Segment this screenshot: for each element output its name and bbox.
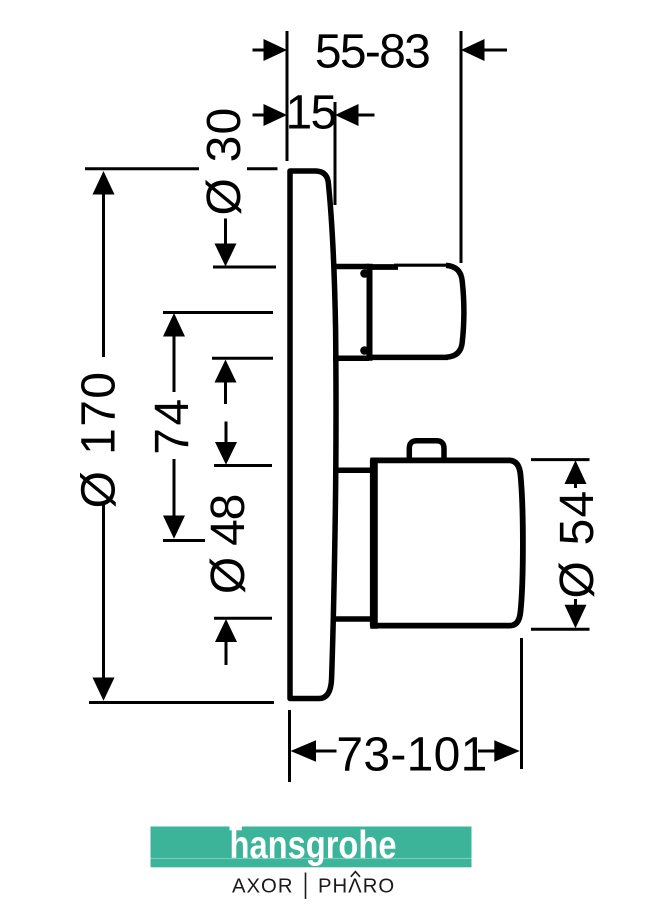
ext line diverter neck bottom xyxy=(212,357,273,360)
ext line vertical bottom left xyxy=(288,710,291,782)
ext line plate bottom xyxy=(89,701,274,704)
diverter knob base fillet bottom xyxy=(360,346,369,355)
svg-text:Ø 170: Ø 170 xyxy=(73,371,126,509)
diverter knob base edge xyxy=(367,264,373,361)
svg-text:73-101: 73-101 xyxy=(336,729,487,782)
diverter neck bottom line xyxy=(333,355,369,361)
ext line knob bottom right xyxy=(531,628,590,631)
svg-text:Ø 30: Ø 30 xyxy=(198,107,251,216)
thermostat neck bottom line xyxy=(332,616,372,622)
ext line vertical bottom right xyxy=(520,638,523,769)
svg-text:74: 74 xyxy=(146,396,199,454)
dimension dia54 bottom arrow xyxy=(565,599,587,628)
dimension dia48 top arrow xyxy=(215,422,237,465)
dimension 15 left arrow xyxy=(253,104,288,126)
svg-text:AXOR: AXOR xyxy=(232,876,293,898)
hansgrohe logo green box xyxy=(151,827,472,868)
svg-text:hansgrohe: hansgrohe xyxy=(230,824,397,867)
escutcheon plate xyxy=(290,171,336,699)
ext line thermostat neck top xyxy=(214,464,272,467)
dimension dia170 top arrow xyxy=(93,171,115,357)
hansgrohe logo notch xyxy=(230,827,242,831)
dimension 55-83 right arrow xyxy=(461,39,507,61)
ext line knob top right xyxy=(531,458,590,461)
diverter knob top edge thin segment xyxy=(394,264,449,267)
diverter knob body fill xyxy=(370,265,464,357)
ext line diverter neck top xyxy=(213,266,276,269)
ext line lower handle axis xyxy=(163,539,205,542)
dimension dia30 upper arrow xyxy=(215,219,237,267)
dimension 15 right arrow xyxy=(335,104,375,126)
ext line vertical x335 xyxy=(334,102,337,205)
svg-text:15: 15 xyxy=(286,87,336,140)
dimension 73-101 left arrow xyxy=(291,740,337,761)
diverter neck top line xyxy=(333,264,369,270)
diverter knob top edge washer segment xyxy=(370,264,399,270)
pharo circumflex xyxy=(351,872,360,877)
dimension dia30 lower arrow xyxy=(215,360,237,405)
svg-text:55-83: 55-83 xyxy=(315,26,429,79)
dimension 73-101 right arrow xyxy=(478,740,520,761)
ext line vertical x461 xyxy=(460,31,463,263)
dimension dia48 bottom arrow xyxy=(215,619,237,665)
thermostat knob base edge xyxy=(370,458,378,629)
diverter knob base fillet top xyxy=(360,269,369,278)
dimension dia170 bottom arrow xyxy=(93,505,115,701)
diverter knob bottom edge xyxy=(370,355,449,361)
dimension 55-83 left arrow xyxy=(253,39,288,61)
ext line plate top xyxy=(85,167,278,170)
svg-text:Ø 48: Ø 48 xyxy=(202,495,255,594)
safety stop tab xyxy=(409,441,444,459)
dimension 74 bottom arrow xyxy=(163,459,185,539)
thermostat knob body xyxy=(373,460,523,625)
diverter knob front edge xyxy=(446,265,464,357)
hansgrohe logo baseline rule xyxy=(151,858,472,859)
svg-text:Ø 54: Ø 54 xyxy=(551,490,604,599)
dimension 74 top arrow xyxy=(163,313,185,392)
svg-text:PHΛRO: PHΛRO xyxy=(318,876,395,898)
brand separator bar xyxy=(305,873,307,900)
ext line thermostat neck bottom xyxy=(214,617,272,620)
ext line upper handle axis xyxy=(163,311,273,314)
ext line vertical x287 xyxy=(286,31,289,161)
dimension dia54 top arrow xyxy=(565,460,587,488)
thermostat neck top line xyxy=(334,468,372,474)
